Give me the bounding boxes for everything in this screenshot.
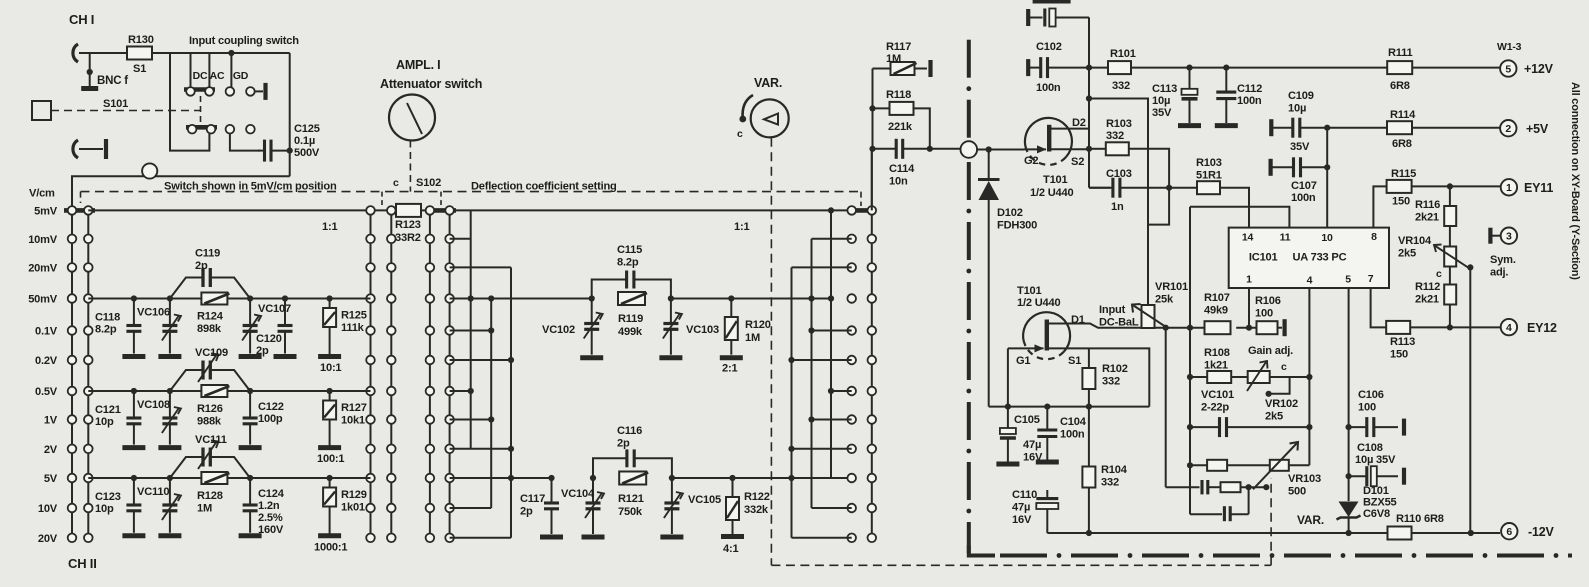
svg-text:C121: C121 (95, 404, 121, 416)
shield boundary lower (966, 162, 971, 553)
svg-text:G1: G1 (1016, 355, 1030, 367)
trimmer VC109 (170, 354, 250, 392)
wire stage 2 input row (88, 390, 370, 392)
switch wiper left wafer (64, 208, 95, 213)
label EY11 (1524, 181, 1553, 195)
junction W2 50mV (808, 295, 814, 301)
junction D102 tap (986, 146, 992, 152)
label VC109 (195, 347, 228, 359)
contact B row 5mV (84, 206, 93, 215)
contact GD upper (246, 87, 255, 96)
stub right 0.1V (812, 330, 852, 332)
svg-text:C106: C106 (1358, 389, 1384, 401)
arrow VAR adjust (739, 95, 753, 122)
label ratio 100:1 (317, 453, 344, 465)
label G1 (1016, 355, 1030, 367)
contact C row 50mV (366, 294, 375, 303)
junction W2 1V (808, 416, 814, 422)
resistor R111 (1387, 61, 1412, 74)
switch S101 knob (32, 101, 51, 120)
ground C120 (274, 354, 297, 359)
label R114 (1390, 109, 1416, 121)
label GD (233, 70, 249, 82)
capacitor C118 (126, 299, 141, 354)
wire D102 anode (988, 150, 990, 179)
svg-text:BZX55: BZX55 (1363, 497, 1397, 509)
label VC108 (137, 399, 170, 411)
label VC103 (686, 324, 719, 336)
label R123 33R2 (395, 219, 421, 244)
svg-text:Switch shown in 5mV/cm positio: Switch shown in 5mV/cm position (164, 181, 337, 193)
contact A row 1V (68, 415, 77, 424)
label T101 lower (1017, 285, 1042, 297)
dashed link right wafer (860, 192, 862, 206)
junction D101 rail (1346, 530, 1352, 536)
svg-text:1:1: 1:1 (734, 221, 749, 233)
switch wiper S101 upper (184, 87, 215, 92)
svg-text:R116: R116 (1415, 199, 1440, 211)
svg-text:c: c (393, 177, 399, 189)
svg-text:1.2n: 1.2n (258, 500, 280, 512)
svg-text:332: 332 (1101, 477, 1119, 489)
label R129 (341, 489, 367, 514)
svg-text:1M: 1M (197, 503, 212, 515)
junction R104 top (1086, 404, 1092, 410)
svg-text:10p: 10p (95, 503, 114, 515)
resistor R102 (1082, 368, 1095, 389)
svg-text:C110: C110 (1012, 489, 1037, 501)
contact D row 5mV (426, 206, 435, 215)
junction VC107 top (247, 295, 253, 301)
label AMPL. I (396, 58, 440, 72)
svg-text:1/2 U440: 1/2 U440 (1030, 187, 1073, 199)
contact A row 0.1V (68, 326, 77, 335)
contact E row 10V (445, 504, 454, 513)
svg-text:14: 14 (1242, 231, 1254, 243)
wire R116 to VR104 (1449, 226, 1451, 247)
capacitor C114 (873, 139, 930, 159)
wire AC lower to C125 (230, 134, 260, 151)
wire R112 to EY12 (1449, 305, 1451, 328)
contact A row 0.2V (68, 356, 77, 365)
ground VC110 (158, 533, 181, 538)
svg-text:332k: 332k (744, 504, 769, 516)
label R111 (1388, 47, 1413, 59)
contact G row 10mV (847, 235, 856, 244)
wire mid buses E (449, 210, 451, 537)
contact E row 20V (445, 534, 454, 543)
junction C121 top (131, 388, 137, 394)
wire GD stub (255, 90, 263, 92)
svg-text:VR102: VR102 (1265, 398, 1298, 410)
ground VC105 (660, 535, 683, 540)
capacitor C110 (1036, 490, 1058, 533)
wire G1 gate (1007, 348, 1009, 406)
svg-text:R102: R102 (1102, 363, 1128, 375)
resistor R110 (1388, 527, 1412, 540)
ground C117 (540, 535, 563, 540)
potentiometer VR101 (1142, 305, 1155, 328)
svg-text:VC102: VC102 (542, 324, 575, 336)
contact C row 5mV (366, 206, 375, 215)
potentiometer VR103 (1270, 460, 1289, 471)
resistor R129 (323, 488, 336, 507)
pin 8 (1371, 231, 1377, 243)
contact B row 0.2V (84, 356, 93, 365)
contact D row 10V (426, 504, 435, 513)
junction V2 0.1V (488, 327, 494, 333)
wire L2 vertical (1189, 207, 1191, 515)
feedthrough shield (961, 141, 978, 158)
label VR101 25k (1155, 281, 1188, 306)
svg-text:100n: 100n (1036, 82, 1061, 94)
ground VC108 (158, 445, 181, 450)
label R120 1M (745, 319, 771, 344)
capacitor C105 (1000, 407, 1016, 462)
contact H row 0.1V (868, 326, 877, 335)
capacitor C120 (278, 299, 293, 354)
junction C108 left (1346, 473, 1352, 479)
capacitor C102 (1028, 57, 1089, 78)
linkage VAR dashed (770, 138, 772, 566)
svg-text:AMPL. I: AMPL. I (396, 58, 440, 72)
ground C112 (1215, 123, 1238, 128)
svg-text:EY11: EY11 (1524, 181, 1553, 195)
junction C107 right (1324, 164, 1330, 170)
contact D row 5V (426, 474, 435, 483)
capacitor C101 (1028, 9, 1089, 27)
contact A row 20V (68, 534, 77, 543)
contact D row 1V (426, 415, 435, 424)
resistor feedback small (1221, 482, 1241, 492)
svg-text:100n: 100n (1060, 429, 1085, 441)
junction input node (869, 146, 875, 152)
junction C112 top (1223, 65, 1229, 71)
ground C124 (239, 533, 262, 538)
svg-text:6R8: 6R8 (1390, 80, 1410, 92)
svg-text:10p: 10p (95, 416, 114, 428)
svg-text:VC104: VC104 (561, 488, 595, 500)
svg-text:47µ: 47µ (1023, 439, 1041, 451)
wire link W1 (791, 267, 793, 537)
wire R129 top lead (329, 478, 331, 487)
junction VC108 top (167, 388, 173, 394)
stub row 20mV (450, 266, 511, 268)
contact B row 1V (84, 415, 93, 424)
label 1/2 U440 lower (1017, 297, 1060, 309)
label C117 2p (520, 493, 545, 518)
svg-text:2p: 2p (617, 438, 630, 450)
pin 5 (1345, 274, 1351, 286)
svg-text:Attenuator switch: Attenuator switch (380, 77, 482, 91)
junction C114 right (927, 146, 933, 152)
svg-text:1:1: 1:1 (322, 221, 337, 233)
resistor R130 (127, 47, 152, 60)
contact H row 1V (868, 415, 877, 424)
contact C row 2V (366, 445, 375, 454)
svg-text:7: 7 (1368, 273, 1374, 285)
contact G row 0.1V (847, 326, 856, 335)
svg-text:D2: D2 (1072, 117, 1086, 129)
label D102 FDH300 (997, 207, 1037, 232)
label c VR104 (1436, 268, 1442, 280)
resistor R115 (1387, 180, 1412, 193)
linkage S101 dashed (51, 110, 201, 112)
label VC101 2-22p (1201, 389, 1234, 414)
wire BNC shell stub (89, 53, 91, 86)
svg-text:2p: 2p (520, 506, 533, 518)
transistor T101 upper half U440 (1024, 118, 1072, 165)
contact C row 5V (366, 474, 375, 483)
contact B row 20mV (84, 263, 93, 272)
wire switch output (289, 53, 291, 176)
ground C122 (239, 445, 262, 450)
terminal +5V (1500, 120, 1516, 136)
terminal +12V (1500, 60, 1516, 76)
stub row 0.5V (450, 390, 471, 392)
label Attenuator switch (380, 77, 482, 91)
label 1:1 right (734, 221, 749, 233)
wire VR104 wiper down (1469, 267, 1471, 533)
transistor T101 lower half U440 (1008, 312, 1070, 359)
svg-text:35V: 35V (1152, 107, 1172, 119)
label bar cropped (1033, 0, 1071, 4)
contact A row 10mV (68, 235, 77, 244)
svg-text:Input: Input (1099, 304, 1126, 316)
contact H row 5V (868, 474, 877, 483)
contact C row 10mV (366, 235, 375, 244)
label R127 (341, 402, 367, 427)
junction W2 0.1V (808, 327, 814, 333)
junction BNC shell (87, 69, 93, 75)
ground VC103 (659, 355, 682, 360)
svg-text:20V: 20V (38, 533, 58, 545)
wire EY12 line (1410, 326, 1500, 328)
svg-text:Input coupling switch: Input coupling switch (189, 35, 299, 47)
wire branch to VR101 (1089, 99, 1148, 306)
wire pin8 to R115 (1373, 186, 1386, 227)
resistor R124 (201, 293, 229, 305)
label C108 (1357, 442, 1383, 454)
svg-text:GD: GD (233, 70, 249, 82)
wire bus column A (71, 207, 73, 538)
label 20mV (28, 262, 58, 274)
potentiometer VR104 (1444, 247, 1456, 267)
label 10mV (28, 234, 58, 246)
label 100n (1036, 82, 1061, 94)
wire -12V rail (1047, 532, 1388, 534)
wire R122 lead (732, 520, 734, 534)
svg-text:2k5: 2k5 (1398, 248, 1416, 260)
svg-text:1M: 1M (745, 332, 760, 344)
ground VC107 (239, 354, 262, 359)
linkage S102 upper (409, 141, 411, 192)
svg-text:2-22p: 2-22p (1201, 402, 1229, 414)
label R108 1k21 (1204, 347, 1230, 372)
contact D row 0.1V (426, 326, 435, 335)
junction VR104 wiper (1467, 264, 1473, 270)
contact G row 20mV (847, 263, 856, 272)
capacitor C113 (1182, 68, 1198, 123)
stub right 1V (812, 419, 852, 421)
contact C row 0.5V (366, 387, 375, 396)
contact A row 0.5V (68, 387, 77, 396)
svg-text:S102: S102 (416, 177, 441, 189)
svg-text:C122: C122 (258, 401, 284, 413)
contact E row 20mV (445, 263, 454, 272)
label C108 val (1355, 454, 1396, 466)
label c VR102 (1281, 361, 1287, 373)
linkage VAR dashed bottom (771, 564, 1271, 566)
capacitor C106 (1349, 417, 1398, 437)
terminal 3 (1501, 228, 1517, 244)
junction R112 bottom (1447, 324, 1453, 330)
label D101 BZX55 (1363, 485, 1397, 520)
wire DC feed (170, 53, 209, 151)
svg-text:W1-3: W1-3 (1497, 41, 1522, 53)
junction VR102 wiper (1266, 391, 1272, 397)
svg-text:10: 10 (1321, 232, 1333, 244)
linkage S102 tick2 (440, 192, 442, 205)
wire VR104 to R112 (1449, 267, 1451, 287)
resistor R103 51R1 (1197, 181, 1220, 194)
resistor R116 (1444, 206, 1456, 226)
wire vertical to C103 (1088, 99, 1090, 188)
svg-text:2.5%: 2.5% (258, 512, 283, 524)
label D2 (1072, 117, 1086, 129)
svg-text:C113: C113 (1152, 83, 1177, 95)
svg-text:C116: C116 (617, 425, 642, 437)
terminal -12V (1501, 523, 1517, 539)
label c VAR (737, 128, 743, 140)
capacitor C119 (170, 268, 250, 299)
junction VC101 left (1187, 424, 1193, 430)
svg-text:10:1: 10:1 (320, 362, 341, 374)
svg-text:VAR.: VAR. (1297, 513, 1324, 527)
wire R101 left (1089, 67, 1108, 69)
junction rowA left (1187, 374, 1193, 380)
svg-text:+5V: +5V (1526, 122, 1549, 136)
label VC110 (137, 486, 169, 498)
contact H row 50mV (868, 294, 877, 303)
label UA 733 PC (1293, 251, 1347, 263)
svg-text:8.2p: 8.2p (617, 257, 639, 269)
label C115 8.2p (617, 244, 642, 269)
svg-text:2k5: 2k5 (1265, 411, 1283, 423)
label ratio 1000:1 (314, 541, 347, 553)
op-amp IC101 UA733PC (1229, 228, 1389, 288)
wire row A gain (1190, 376, 1207, 378)
svg-text:Sym.: Sym. (1490, 254, 1516, 266)
junction C125 output (287, 148, 293, 154)
contact H row 20V (868, 534, 877, 543)
svg-text:c: c (1436, 268, 1442, 280)
wire pin5 vertical (1348, 288, 1350, 501)
svg-text:6: 6 (1506, 526, 1512, 538)
contact H row 0.2V (868, 356, 877, 365)
svg-text:R126: R126 (197, 403, 223, 415)
stub row 0.1V (450, 330, 492, 332)
contact H row 10V (868, 504, 877, 513)
svg-text:50mV: 50mV (28, 294, 58, 306)
label VR103 500 (1288, 473, 1321, 498)
svg-text:150: 150 (1392, 196, 1410, 208)
junction C105 top (1005, 404, 1011, 410)
label VC111 (195, 434, 227, 446)
wire bus column H (871, 150, 873, 537)
trimmer VC108 (162, 391, 181, 445)
wire pin11 link (1190, 207, 1289, 228)
svg-text:0.5V: 0.5V (35, 386, 58, 398)
label W1-3 (1497, 41, 1522, 53)
label 150 R115 (1392, 196, 1410, 208)
svg-text:R115: R115 (1391, 168, 1416, 180)
wire input line (72, 176, 290, 207)
junction R116 top (1447, 183, 1453, 189)
BNC connector CH II (73, 140, 78, 158)
label T101 upper (1043, 174, 1068, 186)
junction VC110 top (167, 475, 173, 481)
label 0.1V (35, 326, 58, 338)
label ratio 4:1 (723, 543, 738, 555)
junction R120 top (728, 295, 734, 301)
resistor R126 (201, 385, 229, 397)
svg-text:R111: R111 (1388, 47, 1413, 59)
label VC106 (137, 307, 170, 319)
wire C103 row (1089, 187, 1110, 189)
svg-text:3: 3 (1506, 231, 1512, 243)
svg-text:C107: C107 (1291, 180, 1317, 192)
contact C2 row 2V (387, 445, 396, 454)
svg-text:R108: R108 (1204, 347, 1230, 359)
svg-text:111k: 111k (341, 322, 365, 334)
svg-text:VC101: VC101 (1201, 389, 1234, 401)
svg-text:V/cm: V/cm (29, 188, 55, 200)
stub row 2V (450, 448, 511, 450)
label C107 100n (1291, 180, 1317, 204)
junction VC104 top (590, 475, 596, 481)
svg-text:adj.: adj. (1490, 267, 1508, 279)
svg-text:R129: R129 (341, 489, 367, 501)
svg-text:150: 150 (1390, 349, 1408, 361)
label R125 (341, 310, 367, 335)
svg-text:1: 1 (1246, 274, 1252, 286)
wire row 5V to divider (450, 477, 552, 479)
contact E row 0.2V (445, 356, 454, 365)
label 1:1 left (322, 221, 337, 233)
contact E row 10mV (445, 235, 454, 244)
knob VAR (751, 99, 789, 137)
svg-text:VR103: VR103 (1288, 473, 1321, 485)
label +12V (1524, 62, 1554, 76)
label C116 2p (617, 425, 642, 450)
label R110 6R8 (1396, 513, 1444, 525)
svg-text:VC106: VC106 (137, 307, 170, 319)
junction rowC riser (1246, 484, 1252, 490)
svg-text:R112: R112 (1415, 281, 1440, 293)
contact C2 row 10mV (387, 235, 396, 244)
label C109 10u (1288, 90, 1314, 115)
svg-text:R114: R114 (1390, 109, 1416, 121)
wire R118 to node (914, 108, 930, 148)
ground C118 (122, 354, 145, 359)
wire DC upper feed (190, 53, 192, 87)
contact C2 row 5mV (387, 206, 396, 215)
svg-text:1/2 U440: 1/2 U440 (1017, 297, 1060, 309)
svg-text:R106: R106 (1255, 295, 1281, 307)
svg-text:R127: R127 (341, 402, 367, 414)
junction R104 rail (1086, 530, 1092, 536)
